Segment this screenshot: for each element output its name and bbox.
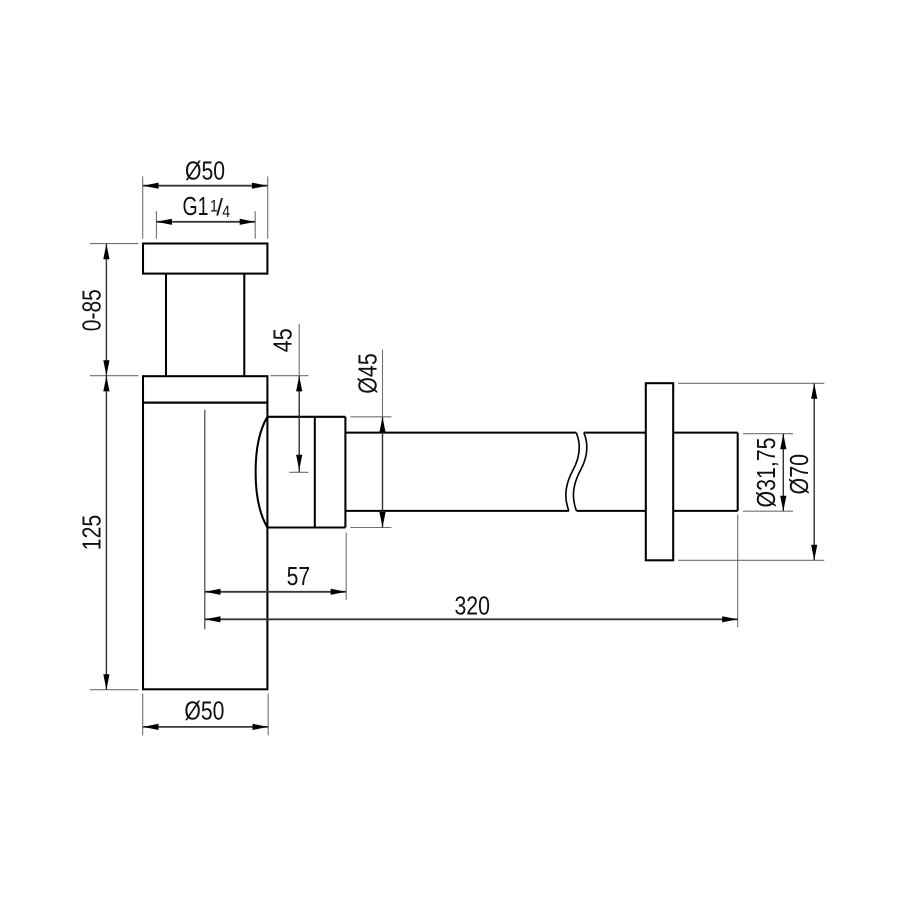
dim 0-85 arrows [103,244,109,260]
svg-text:0-85: 0-85 [76,289,106,331]
dim line d50 top [143,185,267,187]
outlet bottom edge [267,526,345,528]
ext tick flange1 top [90,243,139,245]
ext line dim320 right [737,514,739,627]
ext line d50-top left [142,176,144,238]
ext tick pipe bottom right [743,510,793,512]
pipe 2 top edge segments [345,432,576,434]
outlet top edge [267,416,345,418]
ext line G1 left [155,211,157,239]
nut right edge [344,417,346,528]
dim 125 arrows [103,376,109,392]
dim 50 bottom arrows [143,724,159,730]
ext tick outlet top [350,416,391,418]
body [143,403,267,690]
dim line 45 [298,376,300,472]
dim d45 arrows [379,417,385,433]
ext line dim45 upper [298,324,300,376]
break squiggle [566,433,587,511]
dim 45 arrows [296,376,302,392]
dim 57 arrows [205,589,221,595]
svg-text:Ø70: Ø70 [784,454,814,495]
ext line d50-bottom left [142,693,144,735]
nut divider [314,417,316,528]
ext tick wall flange bottom [678,559,824,561]
flange 2 [143,376,267,402]
wall flange (right) [646,383,673,560]
ext tick outlet bottom [350,527,391,529]
dim d31 arrows [780,434,786,450]
svg-text:125: 125 [76,515,106,551]
pipe 1 vertical left [165,274,167,377]
dim line 320 [205,618,738,620]
squiggle right curve [573,433,586,511]
dim line 0-85 and 125 [105,244,107,690]
ext line G1 right [254,211,256,239]
ext tick pipe top right [743,433,793,435]
svg-text:320: 320 [454,591,490,621]
ext tick outlet center [289,471,308,473]
center line of body drain [204,410,206,630]
squiggle left curve [566,433,579,511]
dim line d31,75 [782,434,784,511]
svg-text:Ø50: Ø50 [184,695,224,725]
svg-text:45: 45 [268,328,298,352]
ext line d45 upper [382,350,384,417]
ext line d50-top right [267,176,269,238]
svg-text:4: 4 [222,202,230,221]
dim line d70 [813,383,815,560]
dim line G1 1/4 [156,221,255,223]
ext tick wall flange top [678,382,824,384]
dim line d45 [382,417,384,528]
dim 320 arrows [205,616,221,622]
pipe 2 bottom edge segments [345,510,569,512]
svg-text:Ø50: Ø50 [185,156,225,186]
pipe 1 vertical right [243,274,245,377]
pipe 2 right end cap [737,433,739,511]
svg-text:G1: G1 [183,191,209,221]
svg-text:Ø45: Ø45 [353,353,383,394]
dim 50 top arrows [143,183,159,189]
ext line d50-bottom right [267,693,269,735]
dim line d50 bottom [143,726,268,728]
ext tick flange2 top left [90,375,139,377]
dim line 57 [205,591,346,593]
outlet arc [256,417,268,528]
flange 1 (top) [143,244,267,274]
svg-text:Ø31,75: Ø31,75 [751,438,781,508]
svg-text:57: 57 [287,561,311,591]
ext line dim57 right [345,533,347,601]
ext tick flange2 top right [271,375,309,377]
dim d70 arrows [811,383,817,399]
dim G arrows [156,219,172,225]
ext tick body bottom [90,689,139,691]
